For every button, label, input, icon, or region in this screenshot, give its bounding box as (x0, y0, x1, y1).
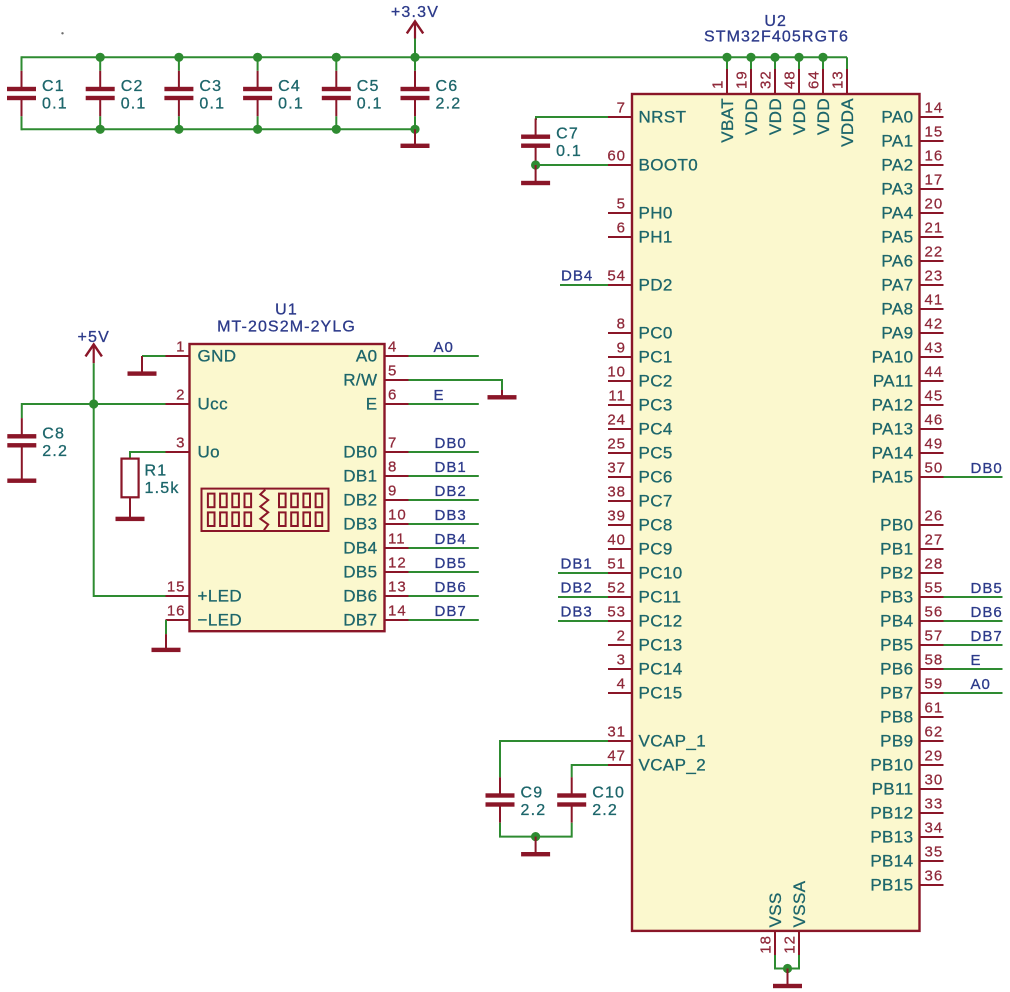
junction (531, 160, 540, 169)
junction (332, 125, 341, 134)
svg-text:PA0: PA0 (881, 108, 913, 127)
junction (722, 53, 731, 62)
svg-text:33: 33 (925, 796, 944, 813)
svg-text:13: 13 (830, 70, 847, 89)
svg-text:61: 61 (925, 700, 944, 717)
wire BOOT0 (536, 164, 608, 166)
svg-text:52: 52 (607, 580, 626, 597)
svg-text:64: 64 (806, 70, 823, 89)
svg-text:+LED: +LED (198, 587, 243, 606)
svg-text:23: 23 (925, 268, 944, 285)
svg-text:DB3: DB3 (561, 603, 593, 620)
U2 pin 37 PC6 (607, 460, 672, 487)
svg-text:C8: C8 (42, 425, 65, 442)
U2 pin 27 PB1 (880, 532, 943, 559)
svg-text:DB1: DB1 (561, 555, 593, 572)
wire C6 bottom stub (414, 116, 416, 129)
ground (773, 969, 802, 989)
svg-text:E: E (434, 387, 445, 404)
svg-text:−LED: −LED (198, 611, 243, 630)
U2 pin 60 BOOT0 (607, 148, 698, 175)
U2 pin 44 PA11 (873, 364, 944, 391)
U2 pin 49 PA14 (872, 436, 944, 463)
U2 top pin 1 VBAT (710, 57, 738, 142)
svg-text:PC11: PC11 (639, 588, 682, 607)
svg-text:PA15: PA15 (872, 468, 914, 487)
svg-text:VBAT: VBAT (718, 98, 737, 143)
svg-text:0.1: 0.1 (199, 96, 225, 113)
wire DB3 to PC12 (558, 620, 608, 622)
wire A0 (409, 355, 479, 357)
svg-text:DB1: DB1 (343, 467, 377, 486)
svg-text:DB6: DB6 (971, 604, 1003, 621)
svg-text:22: 22 (925, 244, 944, 261)
svg-text:E: E (366, 395, 378, 414)
capacitor C9 (486, 777, 547, 822)
wire DB5 (409, 571, 479, 573)
svg-text:Ucc: Ucc (198, 395, 229, 414)
capacitor C4 (243, 71, 304, 116)
U2 pin 36 PB15 (870, 868, 943, 895)
U1 pin 14 DB7 (343, 603, 408, 630)
svg-text:18: 18 (758, 935, 775, 954)
ground (401, 129, 430, 148)
svg-text:DB7: DB7 (435, 603, 467, 620)
svg-text:A0: A0 (971, 676, 991, 693)
svg-text:VSSA: VSSA (790, 880, 809, 927)
junction (794, 53, 803, 62)
svg-text:PB15: PB15 (870, 876, 913, 895)
svg-text:PD2: PD2 (639, 276, 673, 295)
svg-text:C6: C6 (436, 78, 459, 95)
svg-text:57: 57 (925, 628, 944, 645)
U2 pin 4 PC15 (608, 676, 683, 703)
U2 pin 52 PC11 (607, 580, 681, 607)
svg-text:DB4: DB4 (343, 539, 377, 558)
svg-text:VCAP_2: VCAP_2 (639, 756, 707, 775)
IC U2 body (632, 94, 920, 931)
svg-text:1.5k: 1.5k (145, 480, 180, 497)
wire +5V to C8 (22, 404, 94, 418)
svg-text:42: 42 (925, 316, 944, 333)
svg-text:49: 49 (925, 436, 944, 453)
svg-text:DB2: DB2 (561, 579, 593, 596)
wire DB0 (409, 451, 479, 453)
junction (174, 53, 183, 62)
svg-text:62: 62 (925, 724, 944, 741)
wire DB7 (409, 619, 479, 621)
svg-text:VDD: VDD (814, 98, 833, 135)
capacitor C1 (7, 71, 68, 116)
svg-text:PB9: PB9 (880, 732, 913, 751)
svg-text:PC7: PC7 (639, 492, 673, 511)
wire VSS to ground (775, 955, 799, 969)
ground (116, 497, 145, 521)
wire DB3 (409, 523, 479, 525)
svg-text:31: 31 (607, 724, 626, 741)
U2 pin 54 PD2 (607, 268, 672, 295)
junction (253, 53, 262, 62)
svg-text:DB4: DB4 (561, 267, 593, 284)
svg-text:PA12: PA12 (872, 396, 914, 415)
power symbol +5V (77, 329, 110, 404)
ground (152, 634, 181, 652)
svg-text:5: 5 (388, 363, 397, 380)
U2 pin 10 PC2 (607, 364, 672, 391)
svg-text:11: 11 (608, 388, 626, 405)
svg-text:6: 6 (388, 387, 397, 404)
svg-text:Uo: Uo (198, 443, 221, 462)
wire DB2 (409, 499, 479, 501)
svg-text:DB5: DB5 (435, 555, 467, 572)
wire DB0 right (944, 476, 1003, 478)
U2 pin 55 PB3 (880, 580, 943, 607)
power symbol +3.3V (391, 4, 439, 57)
U2 pin 20 PA4 (881, 196, 943, 223)
U1 LCD display graphic (202, 489, 329, 531)
svg-text:29: 29 (925, 748, 944, 765)
U2 pin 23 PA7 (881, 268, 943, 295)
svg-text:PA9: PA9 (881, 324, 913, 343)
svg-text:27: 27 (925, 532, 944, 549)
wire R/W to ground (409, 380, 503, 390)
U2 pin 3 PC14 (608, 652, 683, 679)
wire DB4 to PD2 (560, 284, 608, 286)
svg-text:PB6: PB6 (880, 660, 913, 679)
wire Uo to R1 (130, 452, 166, 459)
svg-text:PC1: PC1 (639, 348, 673, 367)
U2 pin 29 PB10 (870, 748, 943, 775)
svg-text:VSS: VSS (766, 892, 785, 927)
U1 pin 8 DB1 (343, 459, 408, 486)
wire DB7 right (944, 644, 1003, 646)
svg-text:4: 4 (388, 339, 397, 356)
U2 top pin 19 VDD (734, 57, 762, 135)
junction (783, 964, 792, 973)
U2 pin 2 PC13 (608, 628, 683, 655)
junction (253, 125, 262, 134)
svg-text:DB6: DB6 (343, 587, 377, 606)
U2 pin 7 NRST (608, 100, 686, 127)
U2 pin 47 VCAP_2 (607, 748, 706, 775)
svg-text:0.1: 0.1 (278, 96, 304, 113)
U2 pin 30 PB11 (872, 772, 944, 799)
svg-text:DB0: DB0 (971, 460, 1003, 477)
U1 pin 11 DB4 (343, 531, 408, 558)
svg-text:GND: GND (198, 347, 237, 366)
svg-text:C1: C1 (42, 78, 65, 95)
svg-text:2: 2 (617, 628, 626, 645)
U1 pin 6 E (366, 387, 409, 414)
U2 pin 35 PB14 (870, 844, 943, 871)
svg-text:47: 47 (607, 748, 626, 765)
svg-text:PC2: PC2 (639, 372, 673, 391)
svg-text:58: 58 (925, 652, 944, 669)
U2 pin 56 PB4 (880, 604, 943, 631)
svg-text:59: 59 (925, 676, 944, 693)
svg-text:PB4: PB4 (880, 612, 913, 631)
svg-text:PA10: PA10 (872, 348, 914, 367)
svg-text:16: 16 (925, 148, 944, 165)
U2 pin 9 PC1 (608, 340, 673, 367)
wire NRST (536, 117, 608, 120)
svg-text:PA4: PA4 (881, 204, 913, 223)
svg-text:PA2: PA2 (881, 156, 913, 175)
svg-text:60: 60 (607, 148, 626, 165)
U2 pin 26 PB0 (880, 508, 943, 535)
U1 pin 15 +LED (166, 579, 243, 606)
svg-text:30: 30 (925, 772, 944, 789)
U2 pin 61 PB8 (880, 700, 943, 727)
svg-text:PC0: PC0 (639, 324, 673, 343)
svg-text:C5: C5 (357, 78, 380, 95)
svg-text:C4: C4 (278, 78, 301, 95)
svg-text:39: 39 (607, 508, 626, 525)
svg-text:8: 8 (388, 459, 397, 476)
wire DB5 right (944, 596, 1003, 598)
svg-text:44: 44 (925, 364, 944, 381)
wire C3 bottom stub (178, 116, 180, 129)
U2 pin 21 PA5 (881, 220, 943, 247)
junction (96, 125, 105, 134)
svg-text:0.1: 0.1 (357, 96, 383, 113)
junction (746, 53, 755, 62)
junction (531, 832, 540, 841)
svg-text:DB7: DB7 (343, 611, 377, 630)
ground (521, 165, 550, 185)
junction (410, 53, 419, 62)
svg-text:DB3: DB3 (435, 507, 467, 524)
svg-text:20: 20 (925, 196, 944, 213)
svg-text:PC5: PC5 (639, 444, 673, 463)
U2 pin 28 PB2 (880, 556, 943, 583)
svg-text:PA13: PA13 (872, 420, 914, 439)
svg-text:PC14: PC14 (639, 660, 683, 679)
U2 pin 14 PA0 (881, 100, 943, 127)
svg-text:C7: C7 (556, 126, 579, 143)
ground (521, 837, 550, 857)
wire ground bottom rail (22, 128, 416, 130)
U2 pin 53 PC12 (607, 604, 682, 631)
svg-text:PB11: PB11 (872, 780, 914, 799)
svg-text:35: 35 (925, 844, 944, 861)
U2 pin 39 PC8 (607, 508, 672, 535)
ground (128, 356, 157, 376)
wire Ucc (94, 403, 166, 405)
junction (770, 53, 779, 62)
svg-text:BOOT0: BOOT0 (639, 156, 699, 175)
U1 pin 7 DB0 (343, 435, 408, 462)
svg-text:PB3: PB3 (880, 588, 913, 607)
resistor R1 (122, 459, 180, 498)
svg-text:5: 5 (617, 196, 626, 213)
svg-text:PB0: PB0 (880, 516, 913, 535)
svg-text:DB1: DB1 (435, 459, 467, 476)
svg-text:13: 13 (388, 579, 407, 596)
svg-text:+5V: +5V (77, 329, 110, 346)
svg-text:C9: C9 (521, 785, 544, 802)
svg-text:DB7: DB7 (971, 628, 1003, 645)
svg-text:PC4: PC4 (639, 420, 673, 439)
svg-text:56: 56 (925, 604, 944, 621)
U2 pin 38 PC7 (607, 484, 672, 511)
svg-text:DB6: DB6 (435, 579, 467, 596)
svg-text:PB7: PB7 (880, 684, 913, 703)
U1 pin 2 Ucc (166, 387, 229, 414)
svg-text:12: 12 (782, 935, 799, 954)
svg-text:1: 1 (710, 80, 727, 89)
svg-text:R1: R1 (145, 462, 168, 479)
svg-text:PB1: PB1 (880, 540, 913, 559)
wire E right (944, 668, 1003, 670)
svg-text:PB2: PB2 (880, 564, 913, 583)
U1 pin 9 DB2 (343, 483, 408, 510)
svg-text:0.1: 0.1 (556, 143, 582, 160)
svg-text:PA11: PA11 (873, 372, 914, 391)
svg-text:DB5: DB5 (971, 580, 1003, 597)
svg-text:PB13: PB13 (870, 828, 913, 847)
svg-text:PA8: PA8 (881, 300, 913, 319)
U1 pin 12 DB5 (343, 555, 408, 582)
U2 top pin 48 VDD (782, 57, 810, 135)
svg-text:A0: A0 (434, 339, 454, 356)
U2 pin 59 PB7 (880, 676, 943, 703)
capacitor C5 (322, 71, 383, 116)
svg-text:12: 12 (388, 555, 407, 572)
svg-text:DB0: DB0 (435, 435, 467, 452)
svg-text:3: 3 (617, 652, 626, 669)
svg-text:16: 16 (167, 603, 186, 620)
U2 pin 34 PB13 (870, 820, 943, 847)
junction (89, 399, 98, 408)
wire DB2 to PC11 (558, 596, 608, 598)
svg-text:2.2: 2.2 (521, 802, 547, 819)
svg-text:4: 4 (617, 676, 626, 693)
wire C5 bottom stub (335, 116, 337, 129)
svg-text:VCAP_1: VCAP_1 (639, 732, 707, 751)
svg-text:9: 9 (617, 340, 626, 357)
svg-text:43: 43 (925, 340, 944, 357)
svg-text:40: 40 (607, 532, 626, 549)
U2 pin 25 PC5 (607, 436, 672, 463)
wire C1 left drop bottom (21, 116, 23, 130)
ground (488, 390, 517, 400)
U1 pin 1 GND (166, 339, 237, 366)
U2 top pin 32 VDD (758, 57, 786, 135)
ground (7, 464, 36, 483)
U2 pin 24 PC4 (607, 412, 672, 439)
wire GND pin1 (142, 355, 166, 357)
capacitor C6 (401, 71, 462, 116)
svg-text:C2: C2 (121, 78, 144, 95)
wire C2 top stub (99, 57, 101, 71)
U2 top pin 13 VDDA (830, 57, 858, 147)
svg-text:NRST: NRST (639, 108, 687, 127)
svg-text:45: 45 (925, 388, 944, 405)
svg-text:PA14: PA14 (872, 444, 914, 463)
capacitor C7 (521, 119, 582, 164)
U1 pin 13 DB6 (343, 579, 408, 606)
wire C9 C10 to ground (500, 823, 572, 837)
wire VCAP_2 (572, 765, 608, 777)
svg-text:PH0: PH0 (639, 204, 673, 223)
U2 pin 51 PC10 (607, 556, 682, 583)
svg-text:26: 26 (925, 508, 944, 525)
svg-text:2: 2 (176, 387, 185, 404)
capacitor C2 (86, 71, 147, 116)
U2 pin 33 PB12 (870, 796, 943, 823)
svg-text:PC8: PC8 (639, 516, 673, 535)
svg-text:25: 25 (607, 436, 626, 453)
U2 pin 22 PA6 (881, 244, 943, 271)
wire DB6 right (944, 620, 1003, 622)
svg-text:C3: C3 (199, 78, 222, 95)
capacitor C8 (7, 418, 68, 463)
svg-text:2.2: 2.2 (592, 802, 618, 819)
U1 pin 5 R/W (343, 363, 408, 390)
wire DB1 to PC10 (558, 572, 608, 574)
svg-text:VDD: VDD (742, 98, 761, 135)
wire C4 top stub (257, 57, 259, 71)
IC U1 body (190, 344, 385, 631)
svg-text:21: 21 (925, 220, 944, 237)
svg-text:32: 32 (758, 70, 775, 89)
svg-text:11: 11 (388, 531, 406, 548)
U2 pin 11 PC3 (608, 388, 673, 415)
svg-text:2.2: 2.2 (42, 443, 68, 460)
wire DB6 (409, 595, 479, 597)
wire DB1 (409, 475, 479, 477)
svg-text:DB4: DB4 (435, 531, 467, 548)
U2 pin 17 PA3 (881, 172, 943, 199)
svg-text:VDD: VDD (790, 98, 809, 135)
svg-text:38: 38 (607, 484, 626, 501)
svg-text:PA1: PA1 (881, 132, 913, 151)
U2 pin 41 PA8 (881, 292, 943, 319)
junction (818, 53, 827, 62)
stray dot (61, 32, 63, 34)
junction (332, 53, 341, 62)
svg-text:46: 46 (925, 412, 944, 429)
svg-text:17: 17 (925, 172, 944, 189)
svg-text:19: 19 (734, 70, 751, 89)
svg-text:A0: A0 (356, 347, 378, 366)
wire C6 top stub (414, 57, 416, 71)
svg-text:54: 54 (607, 268, 626, 285)
svg-text:PC15: PC15 (639, 684, 683, 703)
svg-text:MT-20S2M-2YLG: MT-20S2M-2YLG (217, 319, 356, 336)
svg-text:PA3: PA3 (881, 180, 913, 199)
U2 pin 50 PA15 (872, 460, 944, 487)
svg-text:2.2: 2.2 (436, 96, 462, 113)
svg-text:PC6: PC6 (639, 468, 673, 487)
svg-text:37: 37 (607, 460, 626, 477)
svg-text:48: 48 (782, 70, 799, 89)
U1 pin 10 DB3 (343, 507, 408, 534)
capacitor C10 (557, 777, 625, 822)
svg-text:9: 9 (388, 483, 397, 500)
svg-text:PC12: PC12 (639, 612, 683, 631)
svg-text:50: 50 (925, 460, 944, 477)
U2 pin 57 PB5 (880, 628, 943, 655)
svg-text:+3.3V: +3.3V (391, 4, 439, 21)
svg-text:PB8: PB8 (880, 708, 913, 727)
U2 pin 40 PC9 (607, 532, 672, 559)
U2 pin 43 PA10 (872, 340, 944, 367)
wire C4 bottom stub (257, 116, 259, 129)
wire C1 left drop top (21, 56, 23, 71)
svg-text:10: 10 (607, 364, 626, 381)
